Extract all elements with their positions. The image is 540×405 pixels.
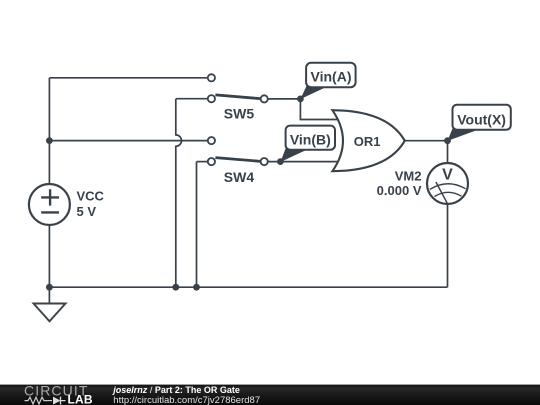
svg-text:V: V: [442, 167, 453, 184]
wire SW5 common to node A: [268, 98, 301, 100]
wire VCC+ branch horizontal y=140.6 to SW4 throw1: [49, 140, 208, 142]
wire VCC+ top horizontal to SW5 throw1: [49, 77, 208, 79]
wire ground bus horizontal: [49, 286, 447, 288]
op gate OR1: [332, 110, 404, 171]
svg-text:Vout(X): Vout(X): [457, 111, 506, 127]
svg-text:joselrnz / Part 2: The OR Gate: joselrnz / Part 2: The OR Gate: [112, 385, 240, 395]
wire SW4 common to node B into OR1 input B: [268, 161, 341, 163]
switch SW4: [208, 137, 268, 185]
voltage source VCC: [29, 184, 105, 225]
wire VCC+ vertical down to VCC source top: [48, 78, 50, 184]
switch SW5: [208, 74, 268, 121]
ground: [34, 304, 66, 322]
wire vertical x=175.8 down to ground bus with hop over y=140.6: [176, 99, 182, 288]
net flag Vin(A): [300, 63, 355, 99]
junction dot ground bus at VCC: [46, 284, 53, 291]
wire VCC source bottom to ground bus: [48, 225, 50, 287]
wire OR1 output to node X: [405, 140, 448, 142]
svg-text:SW5: SW5: [224, 106, 255, 122]
svg-text:http://circuitlab.com/c7jv2786: http://circuitlab.com/c7jv2786erd87: [113, 395, 260, 405]
svg-text:LAB: LAB: [68, 393, 93, 405]
svg-text:VM2: VM2: [395, 169, 422, 184]
CircuitLab logo: [24, 382, 93, 405]
junction dot node A: [297, 96, 304, 103]
svg-text:5 V: 5 V: [77, 204, 97, 219]
svg-text:Vin(A): Vin(A): [311, 69, 352, 85]
wire SW5 throw2 horizontal from x=175.8: [176, 98, 208, 100]
wire ground stub below bus: [48, 287, 50, 303]
junction dot node B: [277, 158, 284, 165]
svg-text:OR1: OR1: [354, 134, 381, 149]
svg-text:SW4: SW4: [224, 169, 255, 185]
voltmeter VM2: [377, 163, 468, 204]
svg-text:VCC: VCC: [77, 188, 105, 203]
wire node X down to voltmeter top: [447, 141, 449, 163]
wire voltmeter bottom down to ground bus: [447, 204, 449, 287]
net flag Vout(X): [448, 105, 511, 141]
wire vertical x=196.5 down to ground bus: [196, 162, 198, 288]
junction dot ground bus at x=196.5: [193, 284, 200, 291]
svg-text:Vin(B): Vin(B): [290, 131, 331, 147]
wire SW4 throw2 horizontal from x=196.5: [197, 161, 208, 163]
junction dot ground bus at x=175.8: [172, 284, 179, 291]
svg-text:0.000 V: 0.000 V: [377, 183, 422, 198]
wire node A down then right into OR1 input A: [300, 99, 341, 120]
net flag Vin(B): [280, 126, 335, 162]
junction dot node X: [444, 137, 451, 144]
junction dot VCC branch y=140.6: [46, 137, 53, 144]
